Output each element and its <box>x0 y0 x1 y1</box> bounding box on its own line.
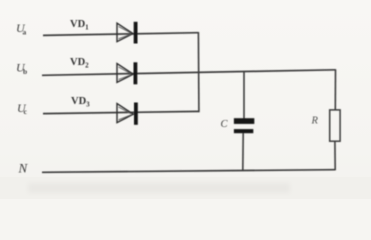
svg-text:a: a <box>23 28 27 37</box>
wire Ub line <box>42 70 336 76</box>
scan background <box>0 0 1 1</box>
resistor R body <box>330 110 340 141</box>
diode VD1 <box>117 22 138 44</box>
wire Ua line <box>43 33 198 36</box>
svg-text:b: b <box>23 67 27 76</box>
node Uc label <box>17 101 28 116</box>
diode VD2 <box>117 62 137 84</box>
svg-text:N: N <box>18 161 29 176</box>
wire Uc line <box>43 111 199 113</box>
wire R bottom drop <box>334 142 336 171</box>
wire cap bottom drop <box>242 133 244 171</box>
svg-text:C: C <box>221 119 229 130</box>
capacitor C bottom plate <box>234 129 253 133</box>
wire cap top drop <box>243 72 245 119</box>
node Ua label <box>16 21 27 37</box>
capacitor C top plate <box>234 118 254 124</box>
wire R top drop <box>334 69 336 110</box>
diode VD3 <box>117 103 138 125</box>
wire bus vertical <box>197 32 200 112</box>
wire N line <box>42 170 335 173</box>
node Ub label <box>16 61 27 77</box>
svg-text:R: R <box>311 116 319 127</box>
